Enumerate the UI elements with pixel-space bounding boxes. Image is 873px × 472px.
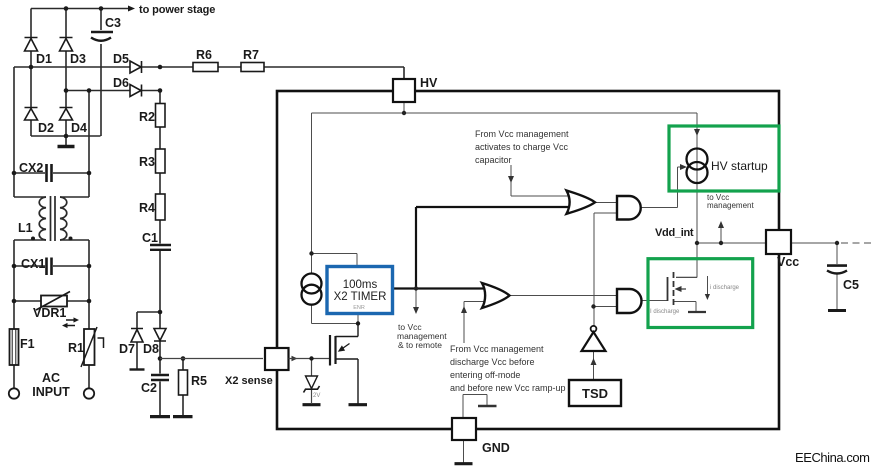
svg-text:From Vcc management: From Vcc management [450,344,544,354]
svg-text:R1: R1 [68,341,84,355]
svg-text:I discharge: I discharge [650,309,680,315]
svg-text:R2: R2 [139,110,155,124]
svg-text:to power stage: to power stage [139,4,215,16]
svg-text:HV: HV [420,76,438,90]
svg-text:i discharge: i discharge [710,285,740,291]
svg-text:and before new Vcc ramp-up: and before new Vcc ramp-up [450,383,566,393]
svg-text:D7: D7 [119,342,135,356]
svg-text:HV startup: HV startup [711,159,768,173]
svg-text:D6: D6 [113,76,129,90]
svg-text:Vcc: Vcc [777,255,799,269]
svg-text:C1: C1 [142,231,158,245]
svg-text:R4: R4 [139,201,155,215]
svg-text:X2 sense: X2 sense [225,375,273,387]
svg-text:R7: R7 [243,48,259,62]
svg-text:D5: D5 [113,52,129,66]
svg-text:& to remote: & to remote [398,340,442,350]
svg-text:TSD: TSD [582,386,608,401]
svg-text:C5: C5 [843,278,859,292]
svg-text:VDR1: VDR1 [33,306,66,320]
svg-text:CX2: CX2 [19,161,43,175]
svg-text:EEChina.com: EEChina.com [795,450,870,465]
svg-text:2V: 2V [313,393,320,399]
svg-text:discharge Vcc before: discharge Vcc before [450,357,535,367]
svg-text:management: management [707,201,754,210]
svg-text:CX1: CX1 [21,257,45,271]
svg-text:D2: D2 [38,121,54,135]
svg-text:R5: R5 [191,374,207,388]
svg-text:X2 TIMER: X2 TIMER [334,291,387,303]
svg-text:GND: GND [482,441,510,455]
svg-text:D3: D3 [70,52,86,66]
svg-text:F1: F1 [20,337,35,351]
svg-text:capacitor: capacitor [475,155,512,165]
svg-text:C3: C3 [105,16,121,30]
svg-text:D8: D8 [143,342,159,356]
svg-text:R6: R6 [196,48,212,62]
svg-text:Vdd_int: Vdd_int [655,227,694,239]
svg-text:R3: R3 [139,155,155,169]
svg-text:C2: C2 [141,381,157,395]
svg-text:L1: L1 [18,221,33,235]
svg-text:100ms: 100ms [343,279,378,291]
svg-text:D4: D4 [71,121,87,135]
svg-text:D1: D1 [36,52,52,66]
svg-text:ENR: ENR [353,305,365,311]
svg-text:AC: AC [42,371,60,385]
svg-text:activates to charge Vcc: activates to charge Vcc [475,142,569,152]
svg-text:INPUT: INPUT [32,385,70,399]
svg-text:entering off-mode: entering off-mode [450,370,520,380]
svg-text:From Vcc management: From Vcc management [475,129,569,139]
